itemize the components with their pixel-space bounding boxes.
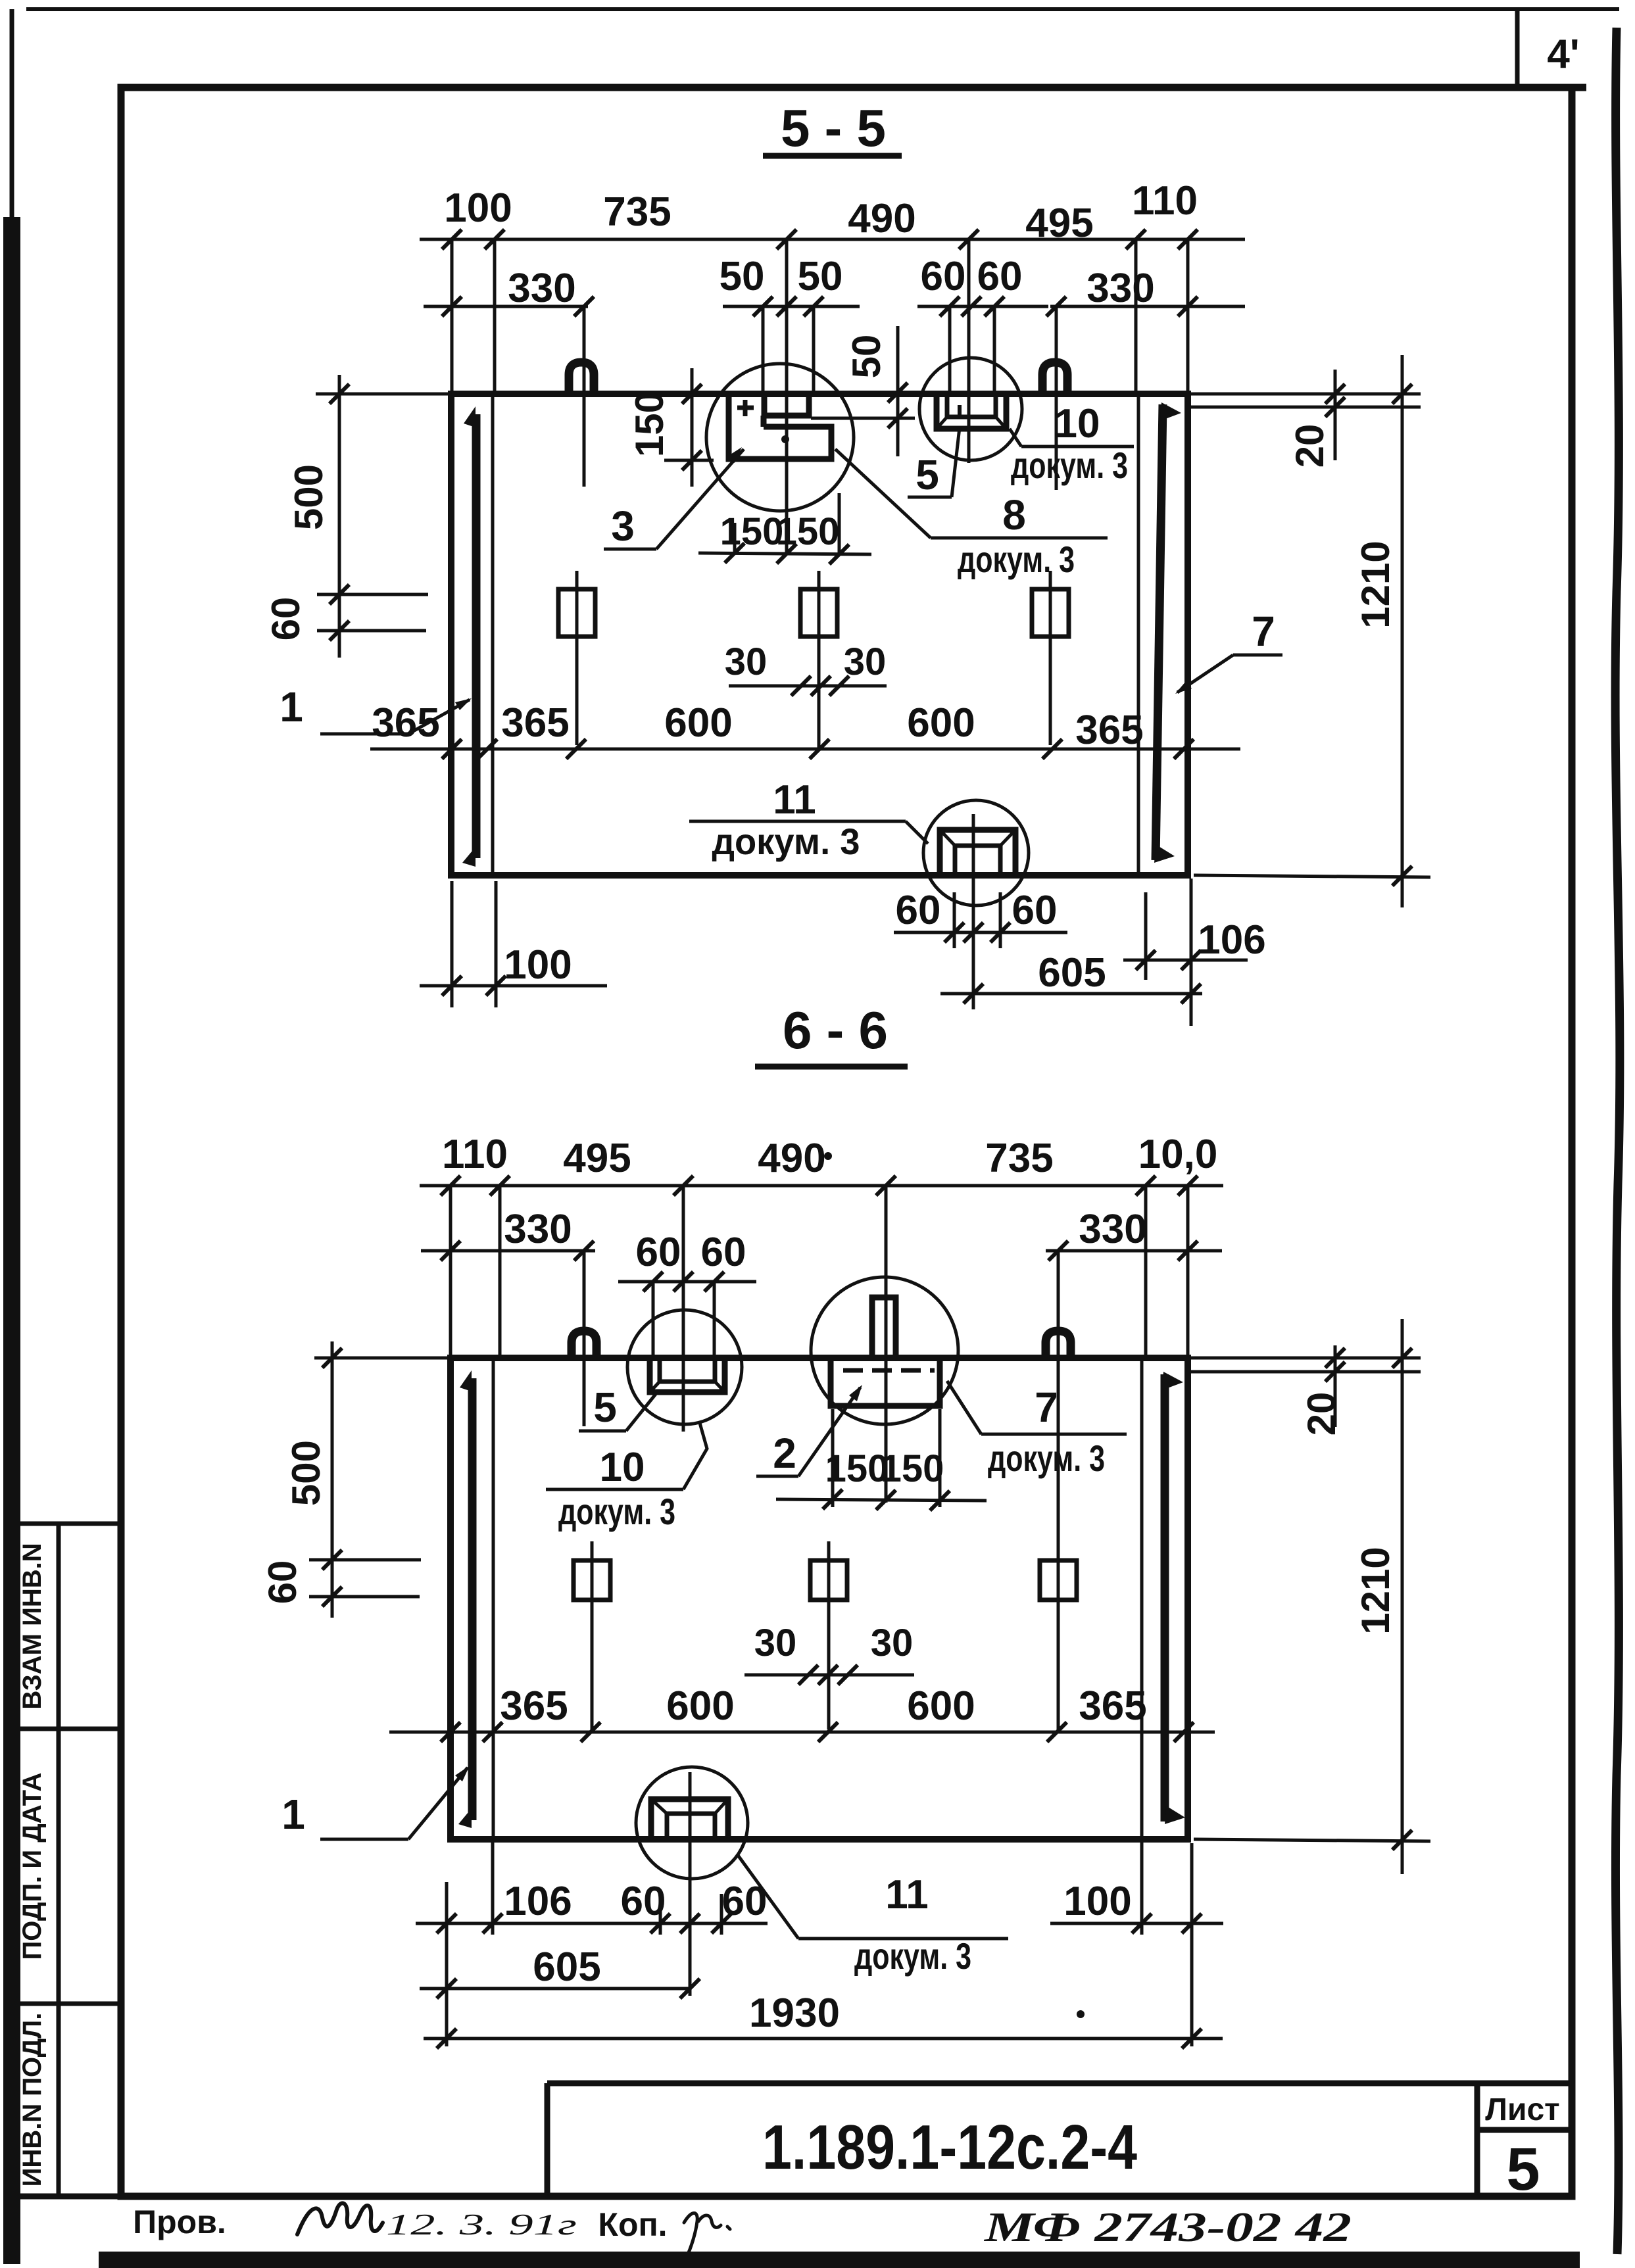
detail circle item 3 (Z-plate): [706, 364, 854, 511]
svg-text:1: 1: [280, 683, 303, 731]
page bottom thick bar: [99, 2252, 1580, 2268]
svg-text:20: 20: [1288, 424, 1332, 468]
svg-text:500: 500: [284, 1440, 328, 1506]
svg-text:60: 60: [636, 1230, 681, 1275]
svg-text:735: 735: [603, 189, 671, 235]
svg-text:1930: 1930: [749, 1991, 840, 2036]
page left edge line (top thin part): [10, 9, 14, 220]
svg-text:7: 7: [1035, 1384, 1058, 1431]
panel 6-6 right prestressing strand (item 7): [1161, 1374, 1169, 1822]
svg-text:330: 330: [1086, 266, 1154, 311]
svg-text:365: 365: [500, 1683, 568, 1729]
svg-text:60: 60: [977, 254, 1023, 299]
dim 605 bottom: [940, 992, 1202, 996]
svg-text:6 - 6: 6 - 6: [783, 1001, 888, 1059]
dim 30-30 line: [729, 685, 887, 688]
detail circle item 5 (top channel): [919, 358, 1022, 460]
left extension lines 5-5: [316, 393, 450, 396]
svg-text:60: 60: [701, 1230, 746, 1275]
svg-text:60: 60: [264, 597, 308, 641]
svg-text:5: 5: [915, 451, 939, 498]
svg-text:500: 500: [287, 464, 331, 530]
dim row1 5-5 line: [420, 238, 1245, 241]
svg-text:60: 60: [921, 254, 966, 299]
page number box divider: [1515, 11, 1520, 86]
svg-text:50: 50: [720, 254, 765, 299]
plate item 2 below edge: [831, 1361, 940, 1406]
svg-text:1210: 1210: [1354, 541, 1398, 628]
svg-text:докум. 3: докум. 3: [712, 821, 860, 862]
panel 6-6 anchor square 2 centerline: [827, 1541, 831, 1729]
right extension lines 5-5: [1190, 393, 1421, 396]
channel 6-6 inner: [660, 1359, 715, 1382]
Z-plate plus mark: [743, 400, 748, 416]
svg-text:60: 60: [260, 1560, 305, 1604]
svg-text:110: 110: [442, 1132, 508, 1177]
panel 6-6 left prestressing strand (item 1): [468, 1378, 477, 1820]
svg-text:5: 5: [593, 1384, 617, 1431]
svg-text:ВЗАМ ИНВ.N: ВЗАМ ИНВ.N: [18, 1543, 47, 1709]
dim 100 bottom left: [420, 984, 607, 988]
svg-text:60: 60: [621, 1879, 666, 1924]
bottom channel 6-6 inner: [667, 1814, 715, 1838]
extension verticals bottom 6-6: [445, 1882, 449, 2046]
panel 5-5 outline: [451, 394, 1188, 875]
dim row2 330 right line: [1050, 305, 1245, 308]
page top edge line: [26, 7, 1619, 11]
panel 5-5 anchor square 3: [1032, 589, 1069, 637]
svg-text:10: 10: [600, 1445, 645, 1490]
panel 6-6 left inner joint line: [492, 1359, 495, 1838]
frame top thick overrun right: [1572, 84, 1586, 91]
title block left edge: [545, 2083, 550, 2196]
svg-text:30: 30: [754, 1622, 797, 1664]
panel 5-5 lifting loop left: [569, 362, 594, 393]
dim 500/60 left vertical 6-6: [331, 1341, 334, 1618]
bottom channel item 11 outer: [940, 830, 1015, 873]
stray dot after 1930: [1077, 2010, 1085, 2018]
svg-text:330: 330: [1079, 1207, 1146, 1252]
panel 6-6 outline: [451, 1358, 1188, 1839]
svg-text:600: 600: [664, 700, 732, 746]
svg-text:12. 3. 91г: 12. 3. 91г: [386, 2208, 577, 2241]
extension verticals bottom left 5-5: [451, 881, 454, 1007]
dim chain 365-365-600-600-365 line: [370, 748, 1240, 751]
svg-text:100: 100: [504, 942, 572, 988]
panel 5-5 anchor square 2: [800, 589, 837, 637]
dim 106 bottom right: [1123, 959, 1248, 962]
svg-text:60: 60: [896, 888, 941, 933]
svg-text:11: 11: [885, 1872, 929, 1918]
svg-text:2: 2: [773, 1430, 796, 1477]
detail circle item 5 (6-6 left channel): [627, 1310, 742, 1424]
svg-text:365: 365: [501, 700, 569, 746]
svg-text:5 - 5: 5 - 5: [781, 99, 886, 157]
svg-text:докум. 3: докум. 3: [1011, 445, 1128, 486]
Z-plate leader horizontal to 50 dim: [811, 417, 915, 420]
dim 1930 6-6: [424, 2037, 1223, 2040]
bottom channel chamfers: [940, 830, 955, 846]
left column divider 3: [20, 2002, 119, 2006]
panel 5-5 anchor square 1: [558, 589, 595, 637]
bottom row small signature: [684, 2213, 730, 2257]
svg-text:10,0: 10,0: [1138, 1132, 1218, 1177]
svg-text:605: 605: [1038, 950, 1106, 996]
svg-text:605: 605: [533, 1944, 600, 1990]
svg-text:докум. 3: докум. 3: [558, 1491, 675, 1532]
svg-text:60: 60: [1012, 888, 1058, 933]
top channel chamfers: [937, 417, 947, 429]
bottom channel 6-6 chamfers: [651, 1799, 667, 1814]
svg-text:495: 495: [1025, 201, 1093, 246]
dim 30-30 6-6: [744, 1674, 914, 1677]
panel 6-6 anchor square 2: [810, 1560, 847, 1600]
svg-text:8: 8: [1002, 491, 1026, 539]
svg-text:5: 5: [1506, 2136, 1540, 2203]
svg-text:10: 10: [1055, 401, 1100, 446]
dim rotated 50 line: [896, 326, 900, 456]
svg-text:1.189.1-12с.2-4: 1.189.1-12с.2-4: [762, 2112, 1137, 2183]
panel 5-5 left inner joint line: [491, 395, 495, 874]
panel 6-6 anchor square 3: [1040, 1560, 1077, 1600]
svg-text:Коп.: Коп.: [598, 2206, 667, 2243]
svg-text:7: 7: [1252, 608, 1275, 655]
dim 605 6-6: [420, 1987, 691, 1991]
dim row2 330 left line: [424, 305, 588, 308]
svg-text:150: 150: [720, 510, 784, 553]
bottom channel 6-6 centerline: [689, 1772, 692, 1996]
dim row1 6-6 line: [420, 1184, 1223, 1188]
panel 6-6 lifting loop right: [1046, 1331, 1071, 1357]
dim 1210 right: [1401, 355, 1404, 907]
panel 5-5 lifting loop right: [1042, 362, 1067, 393]
svg-text:490: 490: [758, 1136, 825, 1181]
dim chain 365-600-600-365 line 6-6: [389, 1731, 1215, 1734]
svg-text:МФ 2743-02 42: МФ 2743-02 42: [984, 2204, 1352, 2250]
extension verticals top 6-6: [449, 1186, 452, 1357]
svg-text:106: 106: [1198, 917, 1265, 963]
svg-text:150: 150: [825, 1447, 889, 1490]
left column top divider: [20, 1522, 119, 1526]
svg-text:600: 600: [907, 1683, 975, 1729]
svg-text:365: 365: [1079, 1683, 1146, 1729]
extension verticals top 5-5: [451, 239, 454, 393]
svg-text:50: 50: [844, 335, 889, 379]
svg-text:150: 150: [776, 510, 840, 553]
dim 50-50 line: [723, 305, 860, 308]
panel 5-5 right prestressing strand (item 7): [1156, 404, 1163, 860]
left column divider 2: [20, 1727, 119, 1731]
svg-text:490: 490: [848, 196, 915, 241]
stray dot above 6-6: [824, 1152, 832, 1160]
svg-text:150: 150: [627, 391, 671, 457]
Z-plate item 3: [764, 395, 809, 416]
left column divider vertical: [57, 1524, 61, 2196]
dim 20 right 6-6: [1334, 1345, 1337, 1427]
svg-text:330: 330: [504, 1207, 572, 1252]
svg-text:110: 110: [1132, 178, 1198, 224]
channel 6-6 outer: [650, 1359, 725, 1392]
top channel weld mark: [958, 405, 962, 417]
dim 60-60 line: [917, 305, 1048, 308]
svg-text:докум. 3: докум. 3: [854, 1935, 971, 1977]
panel 6-6 anchor square 1 centerline: [591, 1541, 594, 1729]
svg-text:1210: 1210: [1354, 1547, 1398, 1634]
page right edge wavy scan line: [1615, 28, 1620, 2254]
bottom channel item 11 inner: [955, 846, 1000, 873]
right extension lines 6-6: [1190, 1357, 1421, 1360]
svg-text:495: 495: [563, 1136, 631, 1181]
svg-text:330: 330: [508, 266, 575, 311]
section title 6-6 underline: [755, 1064, 908, 1070]
top channel item 5 inner: [947, 395, 996, 417]
svg-text:1: 1: [281, 1791, 305, 1838]
svg-text:Лист: Лист: [1485, 2092, 1559, 2127]
svg-text:150: 150: [881, 1447, 944, 1490]
svg-text:106: 106: [504, 1879, 572, 1924]
svg-text:ИНВ.N ПОДЛ.: ИНВ.N ПОДЛ.: [18, 2013, 47, 2187]
bottom row handwritten signature: [297, 2203, 383, 2234]
panel 5-5 anchor square 2 centerline: [817, 571, 821, 749]
detail circle item 11 (6-6 bottom channel): [636, 1767, 748, 1879]
svg-text:735: 735: [985, 1136, 1053, 1181]
dim 500/60 left vertical line: [338, 375, 341, 658]
panel 5-5 anchor square 1 centerline: [575, 571, 579, 745]
svg-text:100: 100: [1063, 1879, 1131, 1924]
section title 5-5 underline: [763, 153, 902, 159]
top channel item 5 outer: [937, 395, 1006, 429]
panel 6-6 lifting loop left: [572, 1331, 597, 1357]
title block list box vertical: [1475, 2083, 1480, 2196]
detail circle item 11 (bottom channel): [923, 800, 1029, 905]
title block list box divider: [1477, 2127, 1572, 2133]
panel 5-5 right inner joint line: [1137, 395, 1140, 874]
svg-text:4': 4': [1547, 32, 1579, 77]
svg-text:600: 600: [666, 1683, 734, 1729]
svg-text:3: 3: [611, 502, 635, 550]
dim row2 330 right 6-6: [1046, 1249, 1222, 1253]
dim 150-150 line below Z: [698, 553, 871, 554]
panel 6-6 anchor square 1: [573, 1560, 610, 1600]
svg-text:Пров.: Пров.: [133, 2204, 226, 2240]
svg-text:11: 11: [773, 777, 816, 823]
bottom channel centerline: [972, 814, 975, 1009]
dim 20 right: [1334, 370, 1337, 460]
bottom channel 6-6 outer: [651, 1799, 728, 1838]
panel 5-5 anchor square 3 centerline: [1049, 571, 1052, 745]
tab item 2 above edge: [872, 1297, 896, 1357]
panel 6-6 right inner joint line: [1140, 1359, 1144, 1838]
channel 6-6 chamfers: [650, 1382, 660, 1392]
svg-text:100: 100: [444, 185, 512, 231]
dim 150-150 6-6: [776, 1499, 987, 1501]
dim 60-60 bottom: [894, 931, 1067, 934]
dim row A 6-6 line: [416, 1922, 768, 1925]
svg-text:докум. 3: докум. 3: [988, 1437, 1105, 1479]
svg-text:50: 50: [798, 254, 843, 299]
svg-text:20: 20: [1300, 1392, 1344, 1436]
dim rotated 150 line: [691, 368, 694, 487]
svg-text:ПОДП. И ДАТА: ПОДП. И ДАТА: [18, 1773, 47, 1960]
svg-text:365: 365: [1075, 708, 1143, 753]
title block top edge: [547, 2081, 1572, 2087]
dim 1210 right 6-6: [1401, 1319, 1404, 1874]
svg-text:30: 30: [725, 640, 768, 683]
page left thick margin bar: [3, 217, 20, 2264]
panel 5-5 left prestressing strand (item 1): [472, 414, 481, 858]
dim 60-60 6-6: [618, 1280, 756, 1284]
plate item 2 hidden dashed line: [839, 1368, 935, 1373]
svg-text:докум. 3: докум. 3: [958, 539, 1075, 580]
svg-text:30: 30: [871, 1622, 914, 1664]
svg-text:600: 600: [907, 700, 975, 746]
Z-plate center dot: [781, 435, 789, 443]
dim row2 330 left 6-6: [421, 1249, 595, 1253]
detail circle item 2 (6-6 center tab): [811, 1277, 958, 1424]
left column bottom line: [20, 2194, 121, 2200]
svg-text:30: 30: [844, 640, 887, 683]
